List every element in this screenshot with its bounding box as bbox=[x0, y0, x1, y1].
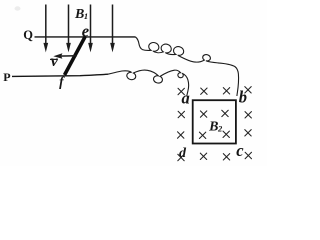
B2 field cross row4 col1 bbox=[178, 154, 184, 160]
B2 field cross row3 col2 bbox=[199, 132, 205, 138]
svg-text:B2: B2 bbox=[208, 120, 223, 135]
loop abcd square bbox=[193, 100, 236, 143]
B1 field arrow 4 head bbox=[110, 43, 115, 53]
rod ef bbox=[65, 36, 86, 75]
B2 field cross row2 col1 bbox=[178, 111, 184, 117]
svg-text:P: P bbox=[3, 70, 10, 84]
B1 field arrow 2 shaft bbox=[68, 5, 70, 46]
svg-text:b: b bbox=[239, 88, 247, 107]
coiled wire from Q to b bbox=[136, 37, 239, 96]
B2 field cross row1 col2 bbox=[201, 88, 207, 94]
B1 field arrow 4 shaft bbox=[112, 5, 114, 46]
velocity arrow head bbox=[53, 53, 62, 59]
rail P bbox=[12, 74, 108, 76]
B2 field cross row4 col4 bbox=[245, 152, 251, 158]
coiled wire from P to a bbox=[108, 70, 189, 96]
B1 field arrow 2 head bbox=[66, 43, 71, 53]
svg-text:Q: Q bbox=[23, 28, 33, 42]
svg-text:v: v bbox=[51, 53, 59, 70]
B2 field cross row1 col4 bbox=[245, 87, 251, 93]
B1 field arrow 1 head bbox=[43, 43, 48, 53]
svg-text:e: e bbox=[82, 21, 89, 40]
velocity arrow shaft bbox=[58, 55, 77, 57]
B2 field cross row2 col2 bbox=[200, 111, 206, 117]
scan smudge bbox=[15, 6, 21, 10]
B2 field cross row1 col1 bbox=[178, 88, 184, 94]
B2 field cross row3 col1 bbox=[178, 132, 184, 138]
B2 field cross row3 col3 bbox=[223, 131, 229, 137]
B2 field cross row1 col3 bbox=[223, 88, 229, 94]
B1 field arrow 1 shaft bbox=[45, 5, 47, 46]
B2 field cross row4 col2 bbox=[200, 153, 206, 159]
B2 field cross row2 col4 bbox=[245, 112, 251, 118]
rail Q bbox=[35, 36, 136, 38]
B2 field cross row4 col3 bbox=[223, 154, 229, 160]
svg-text:a: a bbox=[182, 89, 190, 108]
B1 field arrow 3 head bbox=[88, 43, 93, 53]
B2 field cross row3 col4 bbox=[245, 130, 251, 136]
svg-text:c: c bbox=[236, 141, 244, 160]
B2 field cross row2 col3 bbox=[222, 110, 228, 116]
B1 field arrow 3 shaft bbox=[90, 5, 92, 46]
svg-text:B1: B1 bbox=[74, 7, 88, 22]
